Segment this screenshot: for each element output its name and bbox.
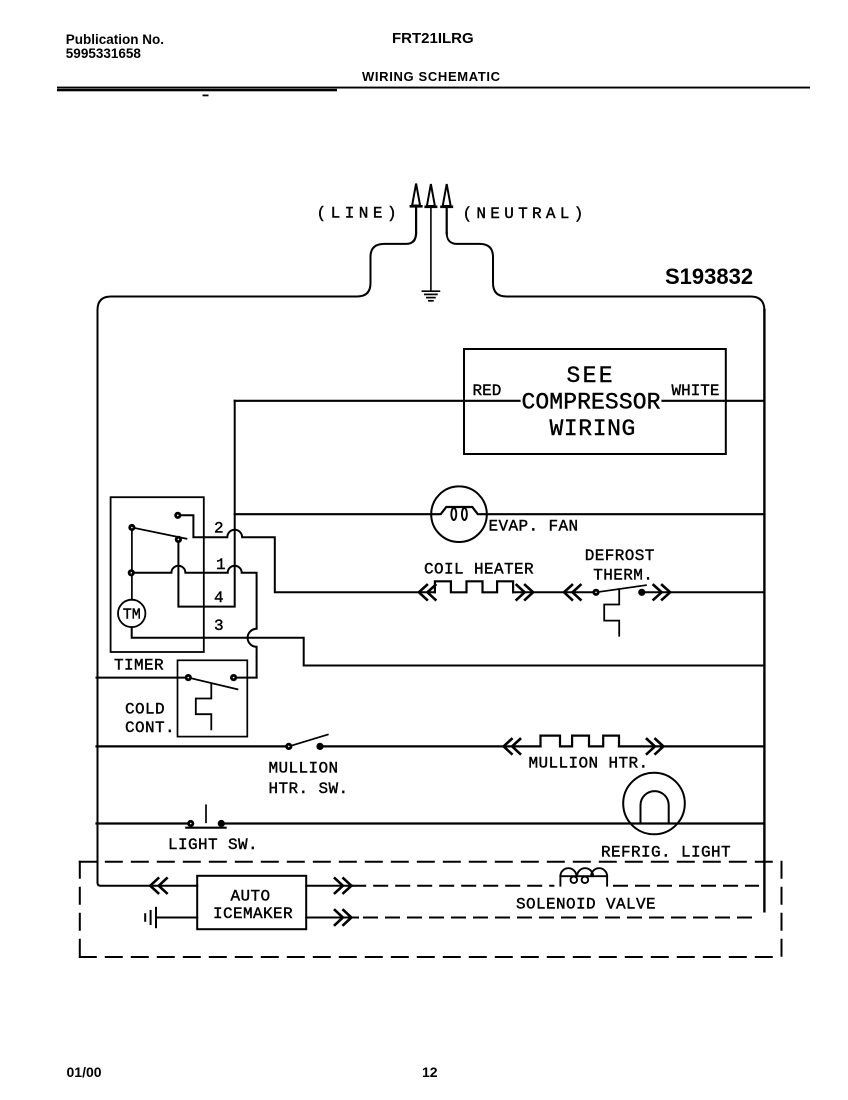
icemaker chevron left [150, 878, 167, 893]
wire right border [763, 310, 765, 911]
wire timer pin2 to coil heater [178, 515, 435, 592]
svg-text:01/00: 01/00 [67, 1064, 102, 1080]
svg-text:1: 1 [216, 556, 226, 574]
svg-text:EVAP. FAN: EVAP. FAN [489, 518, 579, 536]
svg-text:AUTO: AUTO [231, 888, 271, 906]
svg-text:DEFROST: DEFROST [585, 547, 655, 565]
wire border to mullion switch [97, 745, 289, 747]
node defrost right [638, 589, 645, 596]
mullion switch labels [269, 759, 349, 798]
solenoid valve coil L1 [560, 868, 607, 886]
light switch blade [186, 827, 225, 829]
node timer pivot C [128, 524, 135, 531]
timer box [111, 497, 204, 652]
chassis ground icemaker [145, 908, 156, 927]
resistor coil heater [435, 581, 513, 592]
coil heater chevron left [419, 585, 436, 600]
wire defrost to border [642, 591, 764, 593]
svg-text:CONT.: CONT. [125, 719, 175, 737]
cold control switch blade [188, 678, 237, 690]
mullion heater chevron left [504, 739, 520, 754]
coil heater chevron right [517, 585, 534, 600]
node cold right [230, 674, 237, 681]
icemaker chevron right1 [335, 878, 352, 893]
svg-text:S193832: S193832 [665, 264, 753, 289]
resistor mullion heater [541, 736, 620, 747]
svg-text:SOLENOID VALVE: SOLENOID VALVE [516, 896, 656, 914]
svg-text:3: 3 [214, 617, 224, 635]
timer switch blade [132, 528, 187, 539]
defrost therm chevron left [564, 585, 581, 600]
svg-text:WHITE: WHITE [672, 382, 720, 400]
wire top border left with plug curve [98, 233, 417, 886]
plug prong arrow neutral [446, 207, 448, 234]
svg-text:(LINE): (LINE) [317, 205, 402, 223]
cold control labels [125, 701, 175, 738]
wire dashed solenoid to border [614, 885, 758, 887]
wire compressor red [235, 400, 520, 402]
icemaker chevron right2 [335, 910, 352, 925]
svg-text:RED: RED [473, 382, 502, 400]
wire timer pin3 from TM [132, 627, 764, 665]
wire dashed line2 to border [364, 917, 758, 919]
wire timer pin1 to cold control [131, 566, 256, 678]
wire red vertical to timer pin 4 [178, 401, 234, 607]
mullion switch blade [289, 735, 328, 747]
cold control box [178, 660, 248, 736]
wire coil heater to defrost therm [513, 591, 593, 593]
svg-text:ICEMAKER: ICEMAKER [213, 905, 293, 923]
svg-text:REFRIG. LIGHT: REFRIG. LIGHT [601, 843, 731, 861]
dashed optional enclosure [80, 862, 782, 957]
svg-text:MULLION HTR.: MULLION HTR. [529, 755, 649, 773]
wire ground to icemaker [156, 917, 197, 919]
wire timer pivot down to TM [131, 528, 133, 600]
svg-text:4: 4 [214, 589, 224, 607]
svg-text:COIL HEATER: COIL HEATER [424, 561, 534, 579]
node mullion sw right [316, 743, 323, 750]
node timer contact B [175, 536, 182, 543]
evap fan motor M1 [431, 486, 487, 542]
svg-text:COMPRESSOR: COMPRESSOR [522, 390, 661, 416]
svg-text:LIGHT SW.: LIGHT SW. [168, 836, 258, 854]
svg-text:Publication No.: Publication No. [66, 32, 164, 47]
svg-text:WIRING: WIRING [550, 416, 636, 442]
node light sw right [218, 820, 225, 827]
node light sw left [187, 820, 194, 827]
node timer contact A [174, 512, 181, 519]
wire top border right with plug curve [447, 233, 765, 312]
wire compressor white [663, 400, 764, 402]
ground symbol [422, 291, 439, 301]
node defrost left [592, 589, 599, 596]
cold control actuator [196, 683, 212, 729]
svg-text:WIRING SCHEMATIC: WIRING SCHEMATIC [362, 69, 501, 84]
svg-text:(NEUTRAL): (NEUTRAL) [463, 205, 588, 223]
compressor box U1 [464, 349, 726, 454]
svg-text:SEE: SEE [567, 363, 615, 389]
header rule [57, 87, 810, 97]
auto icemaker box [197, 876, 306, 929]
svg-text:TIMER: TIMER [114, 657, 164, 675]
node cold left [185, 674, 192, 681]
wire mullion heater to border [619, 745, 763, 747]
wire icemaker out line1 [306, 885, 352, 887]
svg-text:TM: TM [123, 607, 141, 624]
wire light switch to border [221, 822, 763, 824]
defrost therm actuator [604, 589, 619, 635]
mullion heater chevron right [647, 739, 664, 754]
wire dashed line1 to solenoid [352, 885, 553, 887]
wire cold control to pin1 [234, 677, 257, 679]
svg-text:COLD: COLD [125, 701, 165, 719]
svg-text:5995331658: 5995331658 [66, 46, 142, 61]
svg-text:THERM.: THERM. [593, 567, 653, 585]
defrost therm labels [585, 547, 655, 585]
svg-text:FRT21ILRG: FRT21ILRG [392, 30, 474, 47]
svg-text:MULLION: MULLION [269, 759, 339, 777]
node mullion sw left [285, 743, 292, 750]
light switch plunger [205, 805, 207, 822]
refrigerator light lamp [623, 773, 685, 835]
wire to icemaker [150, 885, 197, 887]
plug prong arrow ground [430, 207, 432, 291]
svg-text:2: 2 [214, 520, 224, 538]
svg-text:HTR. SW.: HTR. SW. [269, 780, 349, 798]
defrost therm chevron right [654, 585, 671, 600]
wire icemaker out line2 [306, 917, 358, 919]
node timer contact D [128, 569, 135, 576]
timer motor TM [118, 600, 145, 627]
defrost therm switch blade [596, 585, 646, 592]
header publication text [66, 32, 164, 61]
wire border to cold control [97, 677, 189, 679]
wire mullion switch to heater [320, 745, 541, 747]
wire border to light switch [97, 822, 191, 824]
svg-text:12: 12 [422, 1064, 438, 1080]
plug prong arrow line [415, 207, 417, 234]
